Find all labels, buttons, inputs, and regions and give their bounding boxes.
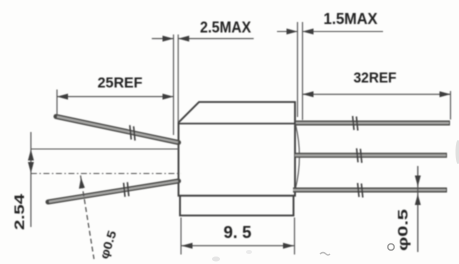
dimension 2.54 arrow down-pointing [28,162,34,173]
dimension 9.5 line [181,245,295,247]
body bottom band [180,196,294,216]
reference line lower lead axis (dash-dot) [31,173,181,175]
extension line pair right (1.5MAX) [297,22,299,117]
dimension 32REF arrow right-pointing [440,91,451,97]
dimension 1.5MAX line right segment [303,31,384,33]
dimension 1.5MAX line left segment [277,31,298,33]
leader line left lead diameter (dash) [81,176,95,260]
svg-text:25REF: 25REF [98,75,143,92]
dimension 25REF arrow right-pointing [163,94,174,100]
dimension 9.5 arrow right-pointing [283,243,294,249]
dimension 2.5MAX line left segment [152,38,174,40]
dimension 2.5MAX arrow right-pointing [163,36,174,42]
lead R1 top right (core) [296,122,449,124]
svg-text:2.5MAX: 2.5MAX [200,20,251,37]
arrow up-pointing (right φ0.5) [415,194,421,205]
dimension 2.54 arrow up-pointing [28,150,34,161]
body top seam line [179,123,295,125]
body outline (component can, chamfered top-left) [179,102,296,196]
extension line body bottom-left (9.5) [180,218,182,255]
body right bulge arc [295,124,299,190]
lead R3 bottom right (outline) [293,188,447,193]
dimension 2.54 vertical line [30,132,32,227]
svg-text:9. 5: 9. 5 [224,222,252,242]
extension line body bottom-right (9.5) [294,218,296,255]
extension tick left lead tip (25REF) [56,90,58,116]
dimension 25REF arrow left-pointing [57,94,68,100]
lead L1 break mark [130,125,131,139]
scan mark ring [388,244,394,250]
dimension 2.5MAX arrow left-pointing [178,36,189,42]
dimension 1.5MAX arrow right-pointing [287,29,298,35]
lead L1 upper-left (core) [57,117,178,143]
dimension line right lead diameter (φ0.5) [417,166,419,252]
svg-text:φ0.5: φ0.5 [396,208,411,251]
extension tick right lead end (32REF) [450,91,452,120]
extension line pair left (2.5MAX) [173,35,175,136]
dimension 1.5MAX arrow left-pointing [303,29,314,35]
svg-text:2.54: 2.54 [11,194,27,230]
scan mark tilde [320,253,330,256]
lead R2 middle right (core) [295,154,446,156]
lead L2 break mark [124,183,125,197]
scan smudge right edge [456,140,459,164]
scan smudge bottom center [212,257,220,262]
dimension 32REF arrow left-pointing [303,91,314,97]
lead R1 break mark [353,116,354,130]
lead L2 lower-left (core) [49,181,178,202]
lead R2 break mark [357,148,358,162]
dimension 32REF line [303,93,451,95]
dimension 25REF line [57,96,174,98]
lead R3 bottom right (core) [293,189,446,191]
lead L2 lower-left (outline) [48,181,179,202]
dimension 9.5 arrow left-pointing [182,243,193,249]
lead R1 top right (outline) [296,121,450,126]
lead R2 middle right (outline) [295,153,447,158]
reference line upper lead axis (solid) [31,148,179,150]
scan smudge bottom right [246,250,252,254]
leader arrow up-pointing (left φ0.5) [79,178,85,189]
dimension 2.5MAX line right segment [178,38,254,40]
svg-text:1.5MAX: 1.5MAX [324,11,378,28]
svg-text:32REF: 32REF [354,70,397,87]
lead L1 upper-left (outline) [56,117,179,143]
arrow down-pointing (right φ0.5) [415,176,421,187]
lead R3 break mark [358,183,359,197]
